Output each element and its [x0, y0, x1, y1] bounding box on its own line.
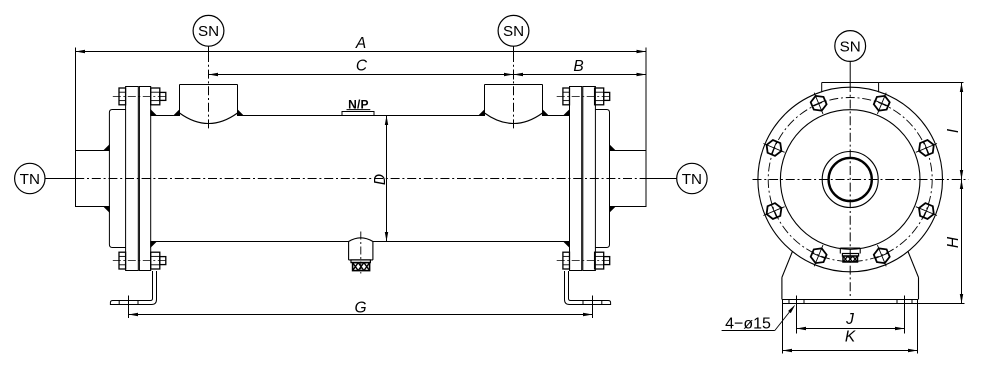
svg-text:TN: TN [20, 171, 40, 188]
weld fillet flange2-shell top [564, 110, 570, 115]
svg-text:D: D [372, 174, 389, 185]
dimension B [514, 58, 647, 80]
svg-text:SN: SN [198, 23, 219, 40]
flange bolt 8 [811, 93, 827, 114]
svg-text:H: H [945, 236, 962, 248]
svg-text:TN: TN [682, 171, 702, 188]
SN label circle 2 [498, 15, 529, 46]
bracket right slot hole [583, 301, 602, 305]
SN3 leader [849, 62, 851, 83]
flange left plate 1 [126, 87, 139, 271]
saddle support right [908, 251, 919, 300]
dimension I [945, 83, 963, 180]
svg-text:B: B [573, 58, 583, 75]
weld fillet flange1-shell bottom [151, 242, 157, 247]
shell bottom line [151, 241, 570, 243]
weld fillet TN-left bottom [104, 207, 110, 212]
saddle support left [782, 251, 793, 300]
flange right plate 1 [570, 87, 582, 271]
centerline (vessel axis) [45, 178, 677, 180]
dimension K [783, 304, 918, 354]
TN label circle left [15, 163, 45, 193]
weld fillet flange1-shell top [151, 110, 157, 115]
SN nozzle 2 [479, 85, 548, 124]
bolt right flange bottom [557, 252, 611, 269]
support bracket left [110, 271, 156, 305]
svg-text:SN: SN [503, 23, 524, 40]
base plate slot left [789, 300, 804, 304]
flange bolt 3 [916, 203, 937, 219]
flange right plate 2 [583, 87, 596, 271]
label 4-diam15 [722, 305, 796, 333]
svg-text:C: C [356, 58, 368, 75]
weld fillet TN-right top [610, 145, 616, 150]
extension line H bottom [918, 303, 965, 305]
drain plug end view [840, 248, 860, 262]
bolt left flange bottom [113, 252, 167, 269]
svg-text:I: I [945, 128, 962, 133]
central nozzle outer circle [822, 152, 878, 208]
bolt left flange top [113, 88, 167, 105]
dimension H [945, 180, 963, 304]
drain boss [349, 238, 373, 260]
TN nozzle right [610, 48, 647, 208]
weld fillet flange2-shell bottom [564, 242, 570, 247]
flange bolt 5 [811, 245, 827, 266]
dimension G [129, 296, 593, 319]
TN label circle right [677, 163, 707, 193]
flange bolt 6 [763, 203, 784, 219]
extension line I top [879, 82, 964, 84]
svg-text:J: J [845, 311, 854, 328]
top nozzle plate [822, 83, 879, 93]
flange bolt 2 [916, 140, 937, 156]
shell top line [151, 115, 570, 117]
flange bolt 7 [763, 140, 784, 156]
svg-text:SN: SN [840, 38, 861, 55]
end view vertical centerline [849, 83, 851, 296]
bolt circle [768, 98, 932, 262]
SN2 leader / nozzle centerline [513, 46, 515, 128]
svg-text:4−ø15: 4−ø15 [725, 316, 771, 333]
TN nozzle left [76, 48, 110, 208]
flange bolt 4 [874, 245, 890, 266]
drain centerline [360, 232, 362, 274]
shell circle [780, 110, 920, 250]
base plate slot right [897, 300, 912, 304]
dimension A [76, 35, 647, 53]
SN1 leader / nozzle centerline [208, 46, 210, 128]
SN label circle 1 [193, 15, 224, 46]
flange left plate 2 [139, 87, 150, 271]
nameplate N/P [342, 98, 374, 116]
svg-text:G: G [354, 300, 366, 317]
dimension J [797, 296, 905, 334]
SN label circle 3 [835, 31, 866, 62]
bolt right flange top [557, 88, 611, 105]
bracket left slot hole [119, 301, 138, 305]
central nozzle bore circle [829, 158, 872, 201]
flange bolt 1 [874, 93, 890, 114]
end view horizontal centerline [753, 179, 969, 181]
base plate [783, 300, 918, 304]
weld fillet TN-right bottom [610, 207, 616, 212]
weld fillet TN-left top [104, 145, 110, 150]
bonnet left [109, 110, 125, 248]
svg-text:A: A [355, 35, 366, 52]
bonnet right [595, 110, 609, 248]
drain plug [351, 260, 370, 271]
support bracket right [565, 271, 611, 305]
flange outer circle [758, 87, 943, 272]
svg-text:K: K [845, 329, 856, 346]
dimension D [372, 116, 389, 242]
SN nozzle 1 [174, 85, 243, 124]
dimension C [209, 58, 514, 77]
